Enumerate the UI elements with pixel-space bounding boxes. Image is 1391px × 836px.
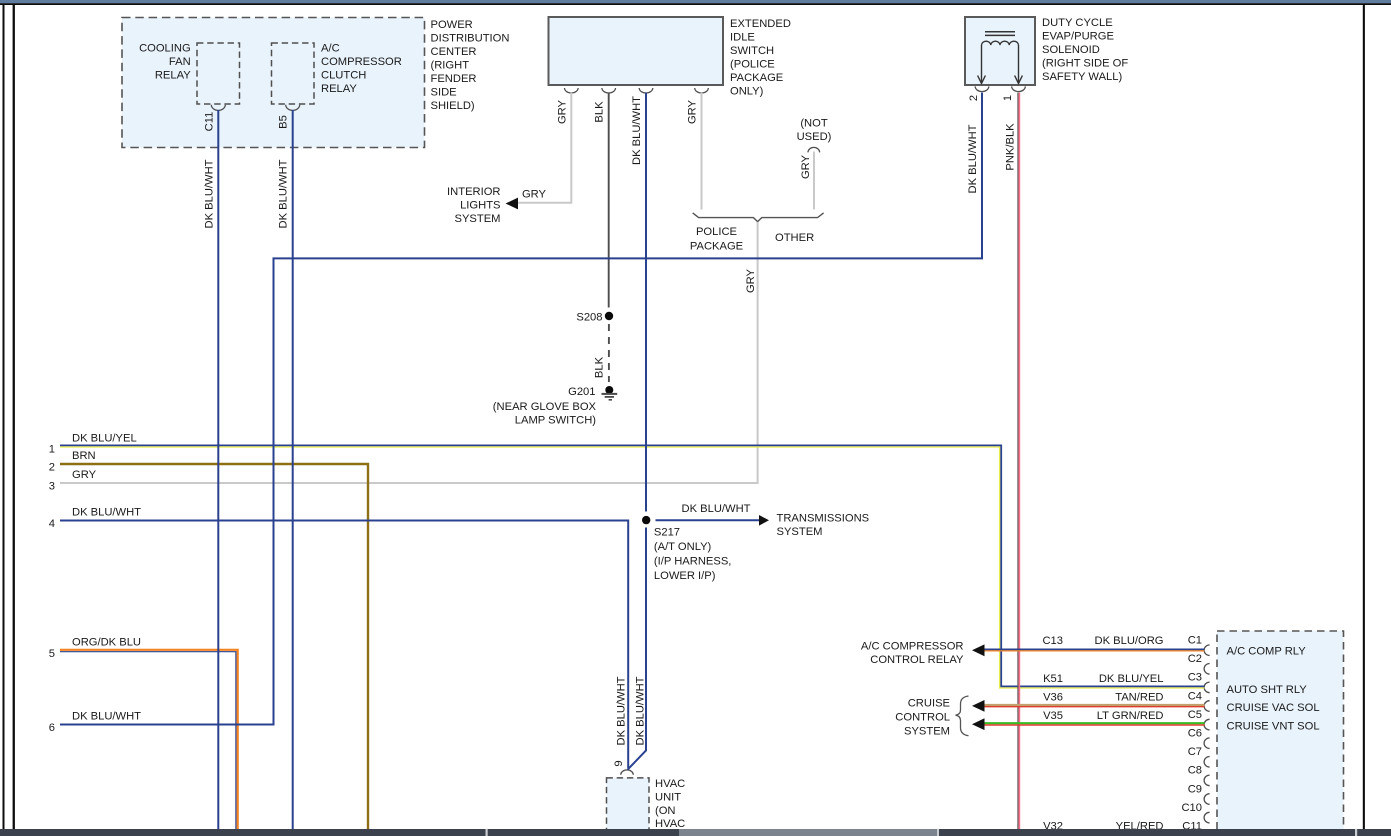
svg-text:DK BLU/WHT: DK BLU/WHT (631, 96, 643, 165)
wire DK BLU/WHT from S217 to transmissions system (656, 519, 760, 521)
svg-text:(RIGHT: (RIGHT (431, 60, 470, 72)
label GRY interior lights wire (522, 189, 547, 201)
svg-text:C13: C13 (1042, 635, 1063, 647)
svg-text:IDLE: IDLE (730, 32, 755, 44)
svg-text:COMPRESSOR: COMPRESSOR (321, 56, 402, 68)
svg-text:LAMP SWITCH): LAMP SWITCH) (515, 415, 596, 427)
svg-text:G201: G201 (568, 386, 595, 398)
label DK BLU/WHT hvac left (616, 676, 628, 745)
wire GRY from switch pin4 to brace (701, 93, 703, 210)
svg-text:(I/P HARNESS,: (I/P HARNESS, (654, 555, 732, 567)
svg-text:DK BLU/WHT: DK BLU/WHT (278, 159, 290, 228)
svg-text:C2: C2 (1188, 653, 1202, 665)
wire TAN/RED V36 row (984, 705, 1205, 707)
svg-text:(RIGHT SIDE OF: (RIGHT SIDE OF (1042, 58, 1128, 70)
extended idle switch box (549, 17, 724, 85)
svg-text:C8: C8 (1188, 765, 1202, 777)
svg-text:S208: S208 (576, 312, 602, 324)
svg-text:DK BLU/WHT: DK BLU/WHT (635, 676, 647, 745)
svg-text:2: 2 (968, 95, 980, 101)
svg-text:AUTO SHT RLY: AUTO SHT RLY (1227, 684, 1308, 696)
wire BRN line 2 (60, 464, 368, 829)
label C13 DK BLU/ORG (1042, 635, 1163, 647)
svg-text:BLK: BLK (594, 101, 606, 123)
svg-text:LOWER I/P): LOWER I/P) (654, 570, 716, 582)
svg-text:OTHER: OTHER (775, 232, 814, 244)
svg-text:GRY: GRY (745, 268, 757, 293)
svg-text:K51: K51 (1043, 673, 1063, 685)
svg-text:SWITCH: SWITCH (730, 45, 774, 57)
arrow cruise vnt (972, 718, 985, 730)
interior lights system label (447, 186, 500, 225)
label DK BLU/WHT under C11 (203, 159, 215, 228)
svg-text:C5: C5 (1188, 709, 1202, 721)
svg-text:COOLING: COOLING (139, 43, 191, 55)
connector pin C1 (1188, 635, 1210, 656)
connector pin C3 (1188, 672, 1210, 693)
wire DK BLU/ORG C13 row (984, 649, 1205, 651)
wire DK BLU/YEL line 1 to connector C3 (60, 445, 1205, 688)
label GRY switch pin1 (557, 99, 569, 124)
connector pin C4 (1188, 690, 1210, 711)
transmissions system label (777, 513, 870, 539)
svg-text:PACKAGE: PACKAGE (730, 72, 783, 84)
wire DK BLU/WHT from S217 down to hvac pin 9 (628, 528, 646, 770)
top border line (0, 3, 1391, 5)
svg-text:UNIT: UNIT (655, 791, 681, 803)
svg-text:ONLY): ONLY) (730, 86, 764, 98)
duty cycle evap/purge solenoid box (965, 17, 1035, 85)
svg-text:BRN: BRN (72, 450, 96, 462)
wire BLK dashed from S208 to G201 (608, 324, 610, 382)
svg-text:1: 1 (1002, 95, 1014, 101)
svg-text:9: 9 (613, 760, 625, 766)
svg-text:(ON: (ON (655, 805, 676, 817)
not used label (797, 118, 832, 144)
svg-text:3: 3 (49, 480, 55, 492)
a/c compressor control relay label (861, 641, 964, 667)
scrollbar divider right (1355, 829, 1357, 836)
S217 label (654, 526, 732, 582)
label V32 YEL/RED (1043, 821, 1163, 833)
svg-text:C11: C11 (203, 112, 215, 132)
svg-text:PACKAGE: PACKAGE (690, 240, 743, 252)
svg-text:A/C: A/C (321, 43, 340, 55)
svg-text:EXTENDED: EXTENDED (730, 18, 791, 30)
label DK BLU/WHT hvac right (635, 676, 647, 745)
label DK BLU/WHT solenoid wire (967, 124, 979, 193)
connector pin C7 (1188, 746, 1210, 767)
svg-text:SYSTEM: SYSTEM (777, 526, 823, 538)
a/c compressor clutch relay label (321, 43, 402, 96)
svg-text:BLK: BLK (594, 356, 606, 378)
svg-text:(NOT: (NOT (800, 118, 828, 130)
hvac unit box (607, 778, 650, 835)
svg-text:GRY: GRY (72, 469, 97, 481)
svg-text:INTERIOR: INTERIOR (447, 186, 500, 198)
hvac unit label (655, 778, 685, 830)
svg-text:USED): USED) (797, 131, 832, 143)
svg-text:PNK/BLK: PNK/BLK (1004, 123, 1016, 171)
a/c compressor clutch relay box (272, 43, 315, 104)
label C11 pin (203, 112, 215, 132)
pin C11 of pdc (211, 105, 225, 111)
svg-text:CRUISE VNT SOL: CRUISE VNT SOL (1227, 721, 1320, 733)
ground G201 location label (493, 401, 597, 427)
svg-text:CRUISE VAC SOL: CRUISE VAC SOL (1227, 702, 1320, 714)
svg-text:DK BLU/ORG: DK BLU/ORG (1094, 635, 1163, 647)
svg-text:DUTY CYCLE: DUTY CYCLE (1042, 17, 1113, 29)
splice S208 (576, 312, 613, 324)
label K51 DK BLU/YEL (1043, 673, 1163, 685)
label 9 hvac pin (613, 760, 625, 766)
svg-text:5: 5 (49, 648, 55, 660)
svg-text:DK BLU/WHT: DK BLU/WHT (616, 676, 628, 745)
svg-text:C3: C3 (1188, 672, 1202, 684)
solenoid right lead with arrow (1015, 45, 1023, 84)
svg-text:POWER: POWER (431, 19, 473, 31)
svg-text:DK BLU/WHT: DK BLU/WHT (72, 507, 141, 519)
label line 1 DK BLU/YEL (49, 432, 137, 455)
solenoid pin 2 (975, 86, 989, 91)
svg-text:V35: V35 (1043, 710, 1063, 722)
svg-text:LIGHTS: LIGHTS (460, 200, 500, 212)
power distribution center box (122, 18, 425, 148)
label BLK switch pin2 (594, 101, 606, 123)
scrollbar divider left (486, 829, 488, 836)
splice S217 (642, 516, 650, 524)
S217 wire label (682, 503, 751, 515)
solenoid label (1042, 17, 1128, 83)
label V36 TAN/RED (1043, 691, 1163, 703)
wire DK BLU/WHT from switch pin3 to S217 and hvac pin 9 (645, 93, 647, 512)
svg-text:TRANSMISSIONS: TRANSMISSIONS (777, 513, 870, 525)
svg-text:(POLICE: (POLICE (730, 59, 775, 71)
svg-text:CENTER: CENTER (431, 46, 477, 58)
scrollbar thumb right edge (937, 829, 939, 836)
svg-text:V36: V36 (1043, 691, 1063, 703)
svg-text:SAFETY WALL): SAFETY WALL) (1042, 71, 1122, 83)
svg-text:C6: C6 (1188, 728, 1202, 740)
svg-text:2: 2 (49, 461, 55, 473)
svg-text:(A/T ONLY): (A/T ONLY) (654, 541, 712, 553)
label DK BLU/WHT switch pin3 (631, 96, 643, 165)
svg-text:DISTRIBUTION: DISTRIBUTION (431, 33, 510, 45)
svg-text:(NEAR GLOVE BOX: (NEAR GLOVE BOX (493, 401, 597, 413)
svg-text:C1: C1 (1188, 635, 1202, 647)
connector pin C6 (1188, 728, 1210, 749)
solenoid core lines (985, 32, 1015, 36)
svg-text:GRY: GRY (800, 154, 812, 179)
other label (775, 232, 814, 244)
svg-text:HVAC: HVAC (655, 818, 685, 830)
switch pin 1 (565, 88, 579, 93)
label 1 solenoid pin (1002, 95, 1014, 101)
connector pin C9 (1188, 783, 1210, 804)
switch pin 4 (695, 88, 709, 93)
connector pin C2 (1188, 653, 1210, 674)
connector internal labels (1227, 646, 1320, 733)
cooling fan relay label (139, 43, 191, 82)
svg-text:FAN: FAN (169, 56, 191, 68)
label line 5 ORG/DK BLU (49, 637, 141, 660)
wire LT GRN/RED V35 row (984, 723, 1205, 725)
label PNK/BLK solenoid wire (1004, 123, 1016, 171)
wire DK BLU/WHT line 4 to hvac pin 9 (60, 521, 628, 769)
scrollbar thumb (679, 829, 937, 836)
label 2 solenoid pin (968, 95, 980, 101)
police package label (690, 226, 743, 252)
police/other brace (693, 213, 824, 222)
label DK BLU/WHT under B5 (278, 159, 290, 228)
svg-text:DK BLU/WHT: DK BLU/WHT (203, 159, 215, 228)
label GRY below brace (745, 268, 757, 293)
svg-text:FENDER: FENDER (431, 73, 477, 85)
svg-text:C9: C9 (1188, 783, 1202, 795)
svg-text:B5: B5 (278, 115, 290, 129)
right border line (1363, 5, 1365, 829)
arrow to interior lights system (506, 198, 519, 210)
label V35 LT GRN/RED (1043, 710, 1163, 722)
solenoid coil (982, 41, 1019, 45)
connector pin C11 (1182, 821, 1209, 836)
svg-text:6: 6 (49, 722, 55, 734)
not used pin arc (808, 147, 820, 152)
wire DK BLU/WHT from pdc pin B5 (292, 110, 294, 829)
label line 4 DK BLU/WHT (49, 507, 141, 530)
svg-text:C10: C10 (1181, 802, 1202, 814)
svg-text:GRY: GRY (557, 99, 569, 124)
wire ORG/DK BLU line 5 (60, 650, 238, 829)
arrow to a/c compressor control relay (972, 644, 985, 656)
arrow to transmissions system (759, 515, 769, 526)
label BLK dashed wire (594, 356, 606, 378)
cooling fan relay box (197, 43, 240, 104)
svg-text:C4: C4 (1188, 690, 1202, 702)
svg-text:SYSTEM: SYSTEM (904, 726, 950, 738)
top window bar (0, 0, 1391, 3)
connector pin C5 (1188, 709, 1210, 730)
label GRY not-used wire (800, 154, 812, 179)
svg-text:DK BLU/YEL: DK BLU/YEL (72, 432, 137, 444)
hvac pin 9 (621, 770, 634, 775)
switch pin 3 (639, 88, 653, 93)
solenoid pin 1 (1012, 86, 1026, 91)
svg-text:1: 1 (49, 444, 55, 456)
svg-text:GRY: GRY (522, 189, 547, 201)
pdc label (431, 19, 510, 112)
label B5 pin (278, 115, 290, 129)
svg-text:SYSTEM: SYSTEM (454, 213, 500, 225)
cruise control system label (895, 698, 950, 738)
wire DK BLU/WHT from pdc pin C11 (217, 110, 219, 829)
svg-text:GRY: GRY (687, 99, 699, 124)
wire DK BLU/WHT line 6 to solenoid pin 2 (60, 93, 982, 725)
arrow cruise vac (972, 700, 985, 712)
label GRY switch pin4 (687, 99, 699, 124)
svg-text:RELAY: RELAY (155, 70, 191, 82)
connector pin C10 (1181, 802, 1209, 823)
svg-text:DK BLU/WHT: DK BLU/WHT (967, 124, 979, 193)
svg-text:TAN/RED: TAN/RED (1115, 691, 1163, 703)
svg-text:ORG/DK BLU: ORG/DK BLU (72, 637, 141, 649)
svg-text:CRUISE: CRUISE (908, 698, 950, 710)
svg-text:RELAY: RELAY (321, 83, 357, 95)
svg-text:SIDE: SIDE (431, 87, 457, 99)
left outer border line (3, 5, 5, 829)
solenoid left lead with arrow (978, 45, 986, 84)
svg-text:SHIELD): SHIELD) (431, 100, 475, 112)
wire GRY from not-used arc (813, 152, 815, 210)
connector pin C8 (1188, 765, 1210, 786)
wire BLK from switch pin2 to S208 (608, 93, 610, 308)
extended idle switch label (730, 18, 791, 98)
bottom scrollbar track (0, 829, 1391, 836)
svg-text:CLUTCH: CLUTCH (321, 70, 366, 82)
svg-text:EVAP/PURGE: EVAP/PURGE (1042, 31, 1114, 43)
svg-text:4: 4 (49, 518, 55, 530)
svg-text:POLICE: POLICE (696, 226, 737, 238)
svg-text:C7: C7 (1188, 746, 1202, 758)
label line 6 DK BLU/WHT (49, 711, 141, 734)
wire GRY line 3 from brace to left edge (60, 222, 758, 483)
svg-text:LT GRN/RED: LT GRN/RED (1097, 710, 1164, 722)
svg-text:DK BLU/YEL: DK BLU/YEL (1099, 673, 1164, 685)
ground G201 (568, 386, 617, 400)
label line 3 GRY (49, 469, 97, 492)
wire PNK/BLK from solenoid pin1 (1018, 93, 1019, 829)
left inner border line (13, 5, 15, 829)
cruise brace (956, 696, 969, 736)
label line 2 BRN (49, 450, 96, 473)
switch pin 2 (602, 88, 616, 93)
wire GRY from switch pin1 to interior lights (517, 93, 571, 203)
svg-text:SOLENOID: SOLENOID (1042, 44, 1100, 56)
svg-text:A/C COMP RLY: A/C COMP RLY (1227, 646, 1307, 658)
svg-text:DK BLU/WHT: DK BLU/WHT (682, 503, 751, 515)
svg-text:CONTROL: CONTROL (895, 711, 950, 723)
svg-text:CONTROL RELAY: CONTROL RELAY (870, 654, 964, 666)
a/c-heater control connector box (1217, 631, 1344, 835)
svg-text:A/C COMPRESSOR: A/C COMPRESSOR (861, 641, 964, 653)
svg-text:S217: S217 (654, 526, 680, 538)
pin B5 of pdc (286, 105, 300, 111)
svg-text:DK BLU/WHT: DK BLU/WHT (72, 711, 141, 723)
svg-text:HVAC: HVAC (655, 778, 685, 790)
